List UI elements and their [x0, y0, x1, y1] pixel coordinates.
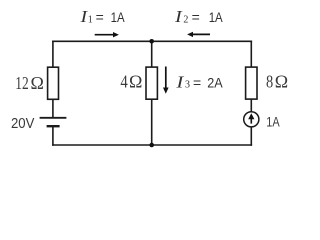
svg-text:1A: 1A — [111, 9, 126, 25]
svg-text:=: = — [192, 9, 200, 25]
svg-text:1: 1 — [88, 14, 93, 25]
label I3 = 2A — [175, 72, 223, 91]
battery V1 long plate — [40, 117, 67, 119]
wire right vertical (R3 to source) — [250, 99, 252, 112]
current source arrow shaft — [250, 119, 252, 124]
svg-text:3: 3 — [185, 80, 190, 91]
svg-text:8: 8 — [266, 71, 273, 91]
current I3 direction arrow head — [163, 88, 169, 94]
current I1 direction arrow shaft — [95, 34, 114, 36]
current source arrow head — [248, 113, 254, 119]
current I1 direction arrow head — [113, 32, 119, 37]
svg-text:1A: 1A — [266, 113, 280, 129]
resistor 12 ohm body — [48, 67, 59, 99]
wire top horizontal — [53, 40, 251, 42]
svg-text:2A: 2A — [207, 74, 223, 90]
svg-text:1A: 1A — [209, 9, 224, 25]
svg-text:Ω: Ω — [129, 71, 142, 91]
label I2 = 1A — [174, 7, 223, 26]
svg-text:=: = — [96, 9, 104, 25]
wire left vertical lower (battery to bottom) — [52, 126, 54, 145]
wire left vertical (R1 to battery) — [52, 99, 54, 117]
wire right vertical lower — [250, 127, 252, 145]
resistor 8 ohm body — [246, 67, 257, 99]
svg-text:2: 2 — [183, 14, 188, 25]
wire middle vertical lower — [151, 99, 153, 145]
label 8 ohm — [266, 71, 288, 91]
wire right vertical upper — [250, 41, 252, 67]
battery V1 short plate — [47, 125, 60, 127]
current I2 direction arrow head — [187, 32, 193, 37]
wire left vertical upper — [52, 41, 54, 67]
node junction dot top — [149, 39, 154, 44]
svg-text:4: 4 — [120, 71, 127, 91]
svg-text:Ω: Ω — [275, 71, 288, 91]
svg-text:20V: 20V — [11, 116, 35, 132]
label 12 ohm — [15, 73, 44, 93]
label I1 = 1A — [79, 7, 125, 26]
svg-text:12: 12 — [15, 73, 28, 93]
wire middle vertical upper — [151, 41, 153, 67]
current I3 direction arrow shaft — [165, 67, 167, 88]
svg-text:Ω: Ω — [31, 73, 44, 93]
svg-text:=: = — [193, 74, 201, 90]
label 4 ohm — [120, 71, 142, 91]
current source I=1A circle — [244, 112, 259, 127]
current I2 direction arrow shaft — [192, 33, 210, 35]
wire bottom horizontal — [53, 144, 251, 146]
resistor 4 ohm body — [146, 67, 157, 99]
node junction dot bottom — [149, 143, 154, 148]
